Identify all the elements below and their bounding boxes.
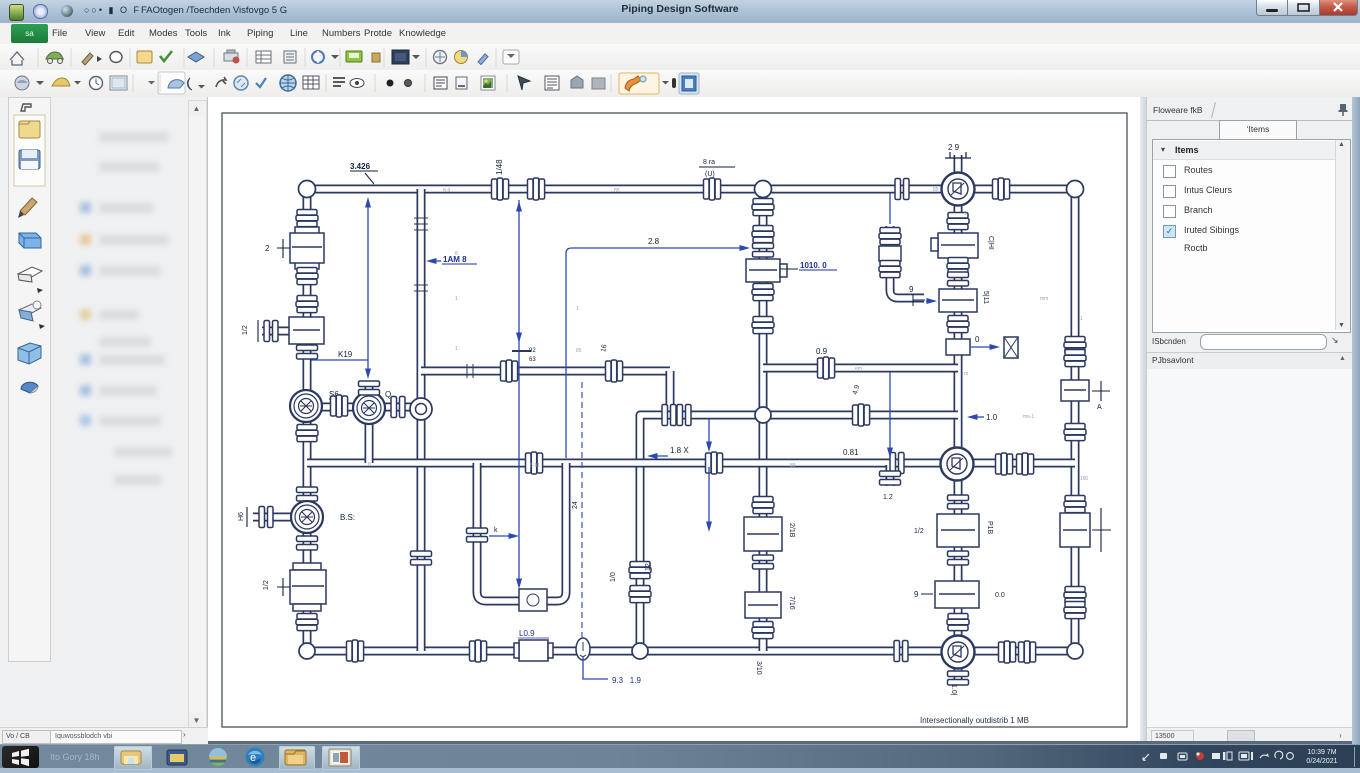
flange H5-c [894,641,908,662]
svg-text:L0.9: L0.9 [519,629,535,638]
tick + label 9 left of K10 [921,593,933,595]
pump PL [291,501,323,533]
tick + label 9 left of K8 [913,294,925,306]
fitting V6-b [629,586,651,603]
valve K10 on V10 [935,581,979,608]
coupling V8-e [752,317,774,334]
svg-text:B.S:: B.S: [340,513,355,522]
coupling V1-b [296,268,318,285]
wire U-loop below H4 [477,463,566,601]
valve K5 on V8 [744,517,782,551]
fitting on V4 [467,528,488,542]
svg-text:7/16: 7/16 [788,596,795,610]
coupling H1-b [528,178,545,200]
drawing sheet border [222,113,1127,727]
valve K8 on V10 [939,289,977,312]
coupling V8-d [752,284,774,301]
svg-text:k: k [494,527,498,534]
coupling V11-b [1064,350,1086,367]
cross symbol at K12 [1092,508,1111,552]
elbow joint bottom-right [1067,643,1083,659]
svg-text:89: 89 [790,463,796,469]
fitting below H4 on x=890 stub [880,471,901,485]
svg-text:1/2: 1/2 [242,325,249,335]
flange H4-c [890,453,904,474]
check valve bowtie symbol [1004,337,1018,358]
svg-text:5|11: 5|11 [982,291,989,304]
blue dimension line x=519 [518,200,520,586]
svg-text:K19: K19 [338,350,353,359]
coupling V3-b [414,285,428,291]
tee joint V8/H3 [755,407,771,423]
svg-text:3.426: 3.426 [350,162,371,171]
tiny pipe marks [368,187,1089,482]
mini valve on V9 [879,246,901,261]
svg-text:(U): (U) [705,171,715,178]
blue dimension x=709 upper [708,419,710,448]
flange at PL stub [259,507,273,528]
coupling H5-d [999,641,1016,663]
svg-text:mm: mm [1040,296,1048,302]
pump P1 [290,390,322,422]
svg-text:A: A [1097,404,1102,411]
svg-text:1010. 0: 1010. 0 [800,261,827,270]
svg-text:85: 85 [933,187,939,193]
elbow joint top-right [1067,181,1084,198]
coupling V10-d [947,316,969,333]
menu bar [0,23,1360,45]
wire run H4 y=463 [307,459,1075,468]
tee joint V8/H1 [755,181,772,198]
fitting V6-a [629,562,651,579]
coupling H2-b [606,360,623,382]
svg-text:8-9: 8-9 [443,188,450,194]
svg-text:9: 9 [964,211,967,217]
svg-text:2: 2 [265,244,270,253]
tick + label 2 at valve K1 [277,239,290,258]
wire stub valveB left y=331 [262,327,292,336]
pump U1 top header [942,173,975,206]
svg-text:1.8 X: 1.8 X [670,446,689,455]
blue dimension line x=368 [367,201,369,375]
svg-text:P1B: P1B [986,521,993,535]
tick + label 1/2 at K2 stub [257,320,259,342]
svg-text:2.8: 2.8 [648,237,660,246]
valve K4 on V8 [746,259,787,282]
valve K2 on V1 [289,317,324,344]
svg-text:85: 85 [614,188,620,194]
svg-text:92: 92 [529,348,536,354]
valve K13 on U-loop [519,589,547,611]
coupling H1-a [492,178,509,200]
valve K6 on V8 [745,592,781,618]
blue arrow into K8 [926,300,934,302]
valve K7 on V10 [931,233,978,258]
valve K12 on V11 [1060,513,1090,547]
wire vertical drop V7 x=670 [666,371,675,415]
svg-text:1.2: 1.2 [883,494,893,501]
wire stub pump top x=958 [954,155,963,175]
svg-text:0.9: 0.9 [816,347,828,356]
svg-text:4.9: 4.9 [852,384,861,395]
tick + label 1/2 at valve K3 [277,578,290,596]
blue dashed line x=582 [581,382,583,638]
coupling H3-a double flange [662,405,676,426]
valve K9 on V10 [937,514,979,547]
svg-text:0: 0 [975,335,980,344]
coupling V3-a [414,218,428,230]
wire branch V9 x=890 [890,226,924,298]
coupling H2-a [501,360,518,382]
blue arrow at U-loop [489,535,515,537]
coupling V1-h [296,614,318,631]
coupling V8-b [752,226,774,243]
wire vertical V2 x=369 [365,385,374,463]
flange H7-b [391,397,405,418]
window title bar [0,0,1360,24]
flange at K2 stub [264,321,278,342]
blue leader 2.8 to V8 [566,248,746,458]
flange V3-c [411,551,432,565]
coupling V9-a [879,228,901,245]
coupling H5-e [1019,641,1036,663]
svg-text:85: 85 [576,348,582,354]
coupling H1-c [704,178,721,200]
svg-text:63: 63 [529,357,536,363]
svg-text:em: em [855,366,862,372]
svg-text:6-91: 6-91 [530,463,540,469]
coupling V10-b [947,258,969,275]
svg-text:190: 190 [1080,476,1089,482]
svg-text:1/2: 1/2 [914,528,924,535]
svg-text:ms-1: ms-1 [1023,414,1034,420]
pump U2 bottom [942,636,975,669]
svg-text:C|HI: C|HI [987,236,994,250]
left panel [0,97,208,744]
coupling H4-e [1017,453,1034,475]
svg-text:8: 8 [455,251,458,257]
svg-text:0.81: 0.81 [843,448,859,457]
cross symbol at K11 [1092,381,1110,401]
svg-text:1/0: 1/0 [610,572,617,582]
svg-text:1/48: 1/48 [495,159,504,175]
svg-text:Intersectionally outdistrib 1: Intersectionally outdistrib 1 MB [920,716,1029,725]
svg-text:9: 9 [914,590,919,599]
valve stub ticks above pump U1 [945,152,971,158]
svg-text:3/10: 3/10 [755,661,762,675]
svg-text:8 ra: 8 ra [703,159,715,166]
flange V8-c [753,243,774,257]
flange V10-c [948,272,969,286]
coupling H2r-a [818,357,835,379]
wire stub pumpL left y=517 [253,513,292,522]
coupling H4-d [996,453,1013,475]
joint circle P3 on V3 [410,398,432,420]
svg-text:1.0|: 1.0| [950,684,957,696]
svg-text:0.0: 0.0 [995,592,1005,599]
svg-text:2/1B: 2/1B [788,523,795,538]
tick + label H6 at PL stub [246,507,248,527]
valve K1 on V1 [290,227,324,269]
coupling V8-a [752,199,774,216]
blue dimension x=709 lower [708,467,710,528]
wire branch H2r y=368 [763,364,958,373]
blue arrow from V10 tee [970,346,996,348]
svg-text:9.3 1.9: 9.3 1.9 [612,676,641,685]
svg-text:m: m [964,371,968,377]
svg-text:16: 16 [600,344,608,353]
wire stub below H4 x=890 [886,465,895,486]
tee joint V6/H5 [632,643,648,659]
pump U3 on H4 [941,448,974,481]
coupling H7-a [331,395,348,417]
coupling V11-c [1064,424,1086,441]
fitting oval on H5 [576,638,590,660]
blue arrow 1.0 [970,416,984,418]
flange V10-e [948,495,969,509]
svg-text:1.0: 1.0 [986,413,998,422]
right panel [1140,97,1146,744]
wire vertical pipe V3 x=421 [417,189,426,651]
wire vertical pipe V10 x=958 [954,189,963,651]
svg-text:2 9: 2 9 [948,143,960,152]
flange H1-d [895,179,909,200]
flange V2 top [359,381,380,395]
coupling H4-b [706,452,723,474]
valve K11 on V11 [1061,380,1089,401]
blue leader 9.3 1.9 [583,657,608,679]
svg-text:9: 9 [909,285,914,294]
valve K14 on H5 [514,640,553,661]
svg-text:1: 1 [1080,316,1083,322]
elbow joint bottom-left [299,643,315,659]
flange V8-g [753,555,774,569]
fitting H2-s [467,364,473,378]
coupling V11-d [1064,496,1086,513]
flange V1-f [297,487,318,501]
status row bottom-left [0,727,208,745]
valve K3 on V1 [290,563,326,611]
wire stub pump bottom x=958 [954,666,963,684]
flange V1-g [297,536,318,550]
coupling V11-e [1064,587,1086,604]
taskbar [0,744,1360,768]
coupling V8-h [752,622,774,639]
blue arrow 1.8 X [650,455,668,457]
coupling V1-e [296,425,318,442]
coupling V1-c [296,296,318,313]
tee fitting on V10 [946,339,970,355]
coupling H4-a [526,452,543,474]
coupling H5-a [347,640,364,662]
wire horizontal run H2 y=371 [421,367,670,376]
svg-text:H6: H6 [238,512,245,521]
flange V1-d [297,345,318,359]
coupling H3-b [853,404,870,426]
svg-text:8: 8 [368,462,371,468]
svg-text:24: 24 [572,501,579,509]
coupling H1-e [993,178,1010,200]
coupling V11-a [1064,337,1086,354]
svg-text:1/2: 1/2 [263,580,270,590]
elbow joint top-left [299,181,316,198]
wire pump row header H7 y=407 [307,403,421,412]
coupling V9-b [879,261,901,278]
canvas [208,97,1146,744]
coupling V8-f [752,497,774,514]
svg-text:1: 1 [455,346,458,352]
wire run H3 y=415 with drop V6 x=640 [640,415,958,651]
svg-text:e: e [250,752,256,764]
blue dimension x=890 [889,372,891,454]
flange under pump U2 [948,671,969,685]
pump P2 [353,392,385,424]
flange V10-f [948,551,969,565]
svg-text:12: 12 [645,563,652,571]
svg-text:1: 1 [455,296,458,302]
coupling V11-f [1064,602,1086,619]
svg-text:1: 1 [576,306,579,312]
coupling V10-g [947,614,969,631]
pipe main loop: top header, left riser, right riser, bottom header [307,189,1075,651]
coupling V10-a [947,213,969,230]
leader K19 [311,359,368,361]
blue line above V9 [889,193,891,224]
coupling V1-a [296,210,318,227]
wire vertical pipe V8 x=763 [759,189,768,651]
coupling H5-b [470,640,487,662]
